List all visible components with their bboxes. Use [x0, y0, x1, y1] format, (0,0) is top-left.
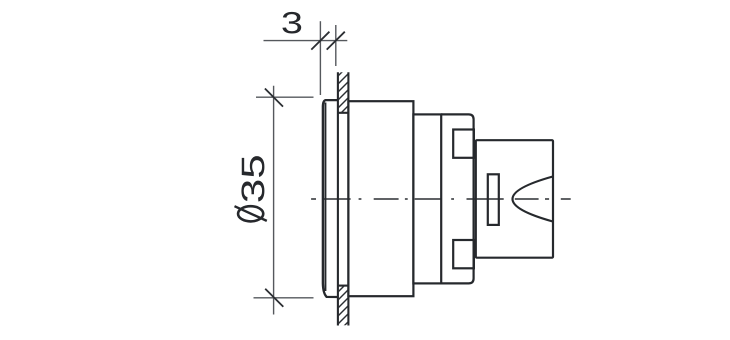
panel front edge	[337, 72, 339, 325]
dimension line Ø35	[273, 86, 275, 315]
extension line bottom of Ø35	[254, 297, 314, 299]
dimension text 3	[282, 12, 301, 34]
extension line top of Ø35	[256, 96, 314, 98]
bezel front face contour	[324, 103, 326, 292]
rear housing	[476, 140, 553, 258]
extension line left of dim 3	[319, 21, 321, 95]
center line	[311, 198, 571, 200]
clip bottom	[453, 240, 474, 268]
lamp parabola	[513, 177, 553, 222]
dimension line 3	[264, 40, 348, 42]
panel hole bottom edge	[338, 285, 349, 287]
tick mark bottom of Ø35	[265, 289, 283, 307]
dimension text Ø35 digit 5	[242, 156, 265, 177]
body flange (rounded)	[441, 114, 473, 283]
dimension text Ø35	[241, 181, 264, 202]
tick mark right of dim 3	[327, 32, 345, 50]
tick mark top of Ø35	[265, 89, 283, 107]
lamp slot	[488, 174, 499, 225]
body middle section	[413, 114, 441, 283]
tick mark left of dim 3	[311, 32, 329, 50]
panel hole top edge	[338, 112, 349, 114]
diameter slash of Ø35	[235, 206, 267, 221]
diameter symbol O of Ø35	[238, 206, 263, 221]
panel hatch bottom	[334, 278, 352, 336]
panel hatch top	[334, 62, 352, 120]
clip top	[453, 130, 474, 158]
bezel (front ring)	[323, 100, 338, 297]
extension line right of dim 3	[335, 25, 337, 66]
panel rear edge	[347, 72, 349, 325]
body front section	[348, 101, 413, 296]
